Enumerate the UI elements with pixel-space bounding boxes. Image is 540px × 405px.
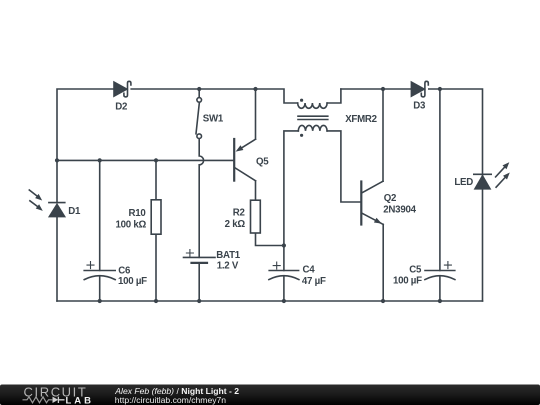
junction: bottom rail / BAT1 bbox=[197, 299, 201, 303]
wire: C6 top lead from rail bbox=[99, 160, 101, 270]
wire: bottom rail bbox=[57, 300, 483, 302]
junction: bottom rail / C6 bbox=[98, 299, 102, 303]
logo diode bbox=[53, 397, 59, 403]
wire: D2 cathode to XFMR primary left lead bbox=[131, 89, 298, 103]
wire: C5 top lead from top rail bbox=[439, 89, 441, 270]
diode D3 (schottky) bbox=[411, 81, 428, 97]
wire: SW1 top lead bbox=[198, 89, 200, 98]
wire: XFMR secondary right lead to Q2 base bbox=[327, 131, 360, 202]
wire: C4 bottom lead bbox=[283, 276, 285, 301]
transistor Q5 (PNP) bbox=[234, 139, 255, 181]
svg-text:100 µF: 100 µF bbox=[118, 276, 147, 287]
light arrow 2 bbox=[496, 178, 505, 188]
emitter with arrow into base bbox=[242, 139, 256, 147]
secondary polarity dot bbox=[300, 134, 303, 137]
plus sign bbox=[87, 262, 94, 269]
wire: R10 bottom lead bbox=[155, 234, 157, 301]
transformer XFMR2 bbox=[298, 99, 328, 137]
wire: top-left corner + left vertical down to D1 bbox=[57, 89, 114, 203]
light arrow 1 bbox=[496, 167, 505, 177]
wire: R2 bottom elbow to C4 branch bbox=[256, 233, 284, 246]
svg-text:R10: R10 bbox=[128, 208, 145, 219]
wire: XFMR primary right lead up to top rail bbox=[327, 89, 341, 103]
emitter with arrow bbox=[362, 213, 383, 224]
svg-text:1.2 V: 1.2 V bbox=[217, 261, 239, 272]
svg-text:Q2: Q2 bbox=[384, 193, 396, 204]
secondary coil bbox=[298, 125, 327, 131]
junction: top rail / Q2 collector bbox=[381, 87, 385, 91]
plus sign bbox=[273, 262, 280, 269]
primary coil bbox=[298, 103, 327, 108]
wire: Q5 emitter lead up to top rail bbox=[255, 89, 257, 139]
light arrow 2 bbox=[30, 201, 38, 207]
primary polarity dot bbox=[300, 99, 303, 102]
wire: R10 top lead bbox=[155, 160, 157, 199]
svg-text:C5: C5 bbox=[409, 265, 422, 276]
battery BAT1 bbox=[184, 250, 216, 263]
svg-text:100 kΩ: 100 kΩ bbox=[115, 219, 146, 230]
wire: D3 cathode to top-right corner, down to LED bbox=[429, 89, 483, 175]
svg-text:C6: C6 bbox=[118, 265, 131, 276]
junction: bottom rail / Q2 emitter bbox=[381, 299, 385, 303]
junction: bottom rail / C5 bbox=[438, 299, 442, 303]
logo resistor zigzag bbox=[23, 397, 53, 403]
wire: XFMR secondary left lead down to C4 bbox=[284, 131, 298, 271]
wire: BAT1 bottom lead bbox=[198, 263, 200, 301]
svg-text:LED: LED bbox=[454, 177, 473, 188]
photodiode D1 bbox=[29, 190, 65, 217]
junction: rail / R10 bbox=[154, 158, 158, 162]
LED bbox=[474, 162, 510, 189]
wire: SW1 bottom lead with hop over rail, down to BAT1 bbox=[199, 138, 203, 257]
svg-text:2N3904: 2N3904 bbox=[383, 205, 416, 216]
junction: left rail / D1 branch bbox=[55, 158, 59, 162]
diode D2 (schottky) bbox=[114, 81, 131, 97]
junction: R2 / C4 node bbox=[282, 243, 286, 247]
wire: Q5 collector to R2 top bbox=[255, 181, 257, 200]
wire: D1 anode to bottom rail bbox=[56, 217, 58, 301]
capacitor C6 bbox=[84, 262, 115, 280]
junction: rail / C6 bbox=[98, 158, 102, 162]
svg-text:R2: R2 bbox=[233, 208, 245, 219]
junction: top rail / SW1 bbox=[197, 87, 201, 91]
capacitor C5 bbox=[425, 262, 455, 280]
svg-text:XFMR2: XFMR2 bbox=[345, 114, 377, 125]
core bbox=[298, 116, 328, 119]
junction: bottom rail / R10 bbox=[154, 299, 158, 303]
svg-text:100 µF: 100 µF bbox=[393, 276, 422, 287]
wire: LED anode down to bottom-right corner bbox=[482, 189, 484, 301]
wire: C6 bottom lead bbox=[99, 276, 101, 301]
transistor Q2 (NPN 2N3904) bbox=[361, 181, 383, 224]
svg-text:BAT1: BAT1 bbox=[216, 250, 240, 261]
junction: bottom rail / C4 bbox=[282, 299, 286, 303]
plus sign bbox=[186, 250, 193, 257]
svg-text:http://circuitlab.com/chmey7n: http://circuitlab.com/chmey7n bbox=[115, 395, 227, 405]
wire: C5 bottom lead bbox=[439, 276, 441, 301]
svg-text:47 µF: 47 µF bbox=[302, 276, 326, 287]
wire: left node rail to Q5 base bbox=[57, 159, 233, 161]
switch SW1 bbox=[196, 98, 202, 139]
wire: Q2 emitter lead down to bottom rail bbox=[382, 224, 384, 301]
svg-text:D1: D1 bbox=[68, 206, 81, 217]
wire: top rail from XFMR to D3 bbox=[341, 88, 412, 90]
svg-text:D2: D2 bbox=[115, 101, 127, 112]
collector diagonal bbox=[362, 181, 383, 192]
collector diagonal bbox=[235, 168, 255, 181]
junction: top rail / C5 bbox=[438, 87, 442, 91]
junction: top rail / Q5 emitter bbox=[253, 87, 257, 91]
light arrow 1 bbox=[29, 190, 37, 196]
resistor R10 bbox=[151, 200, 161, 234]
resistor R2 bbox=[251, 200, 261, 233]
svg-text:Q5: Q5 bbox=[256, 157, 269, 168]
wire: Q2 collector lead up to top rail bbox=[382, 89, 384, 181]
plus sign bbox=[444, 262, 451, 269]
svg-text:LAB: LAB bbox=[66, 396, 95, 405]
capacitor C4 bbox=[269, 262, 299, 280]
svg-text:D3: D3 bbox=[413, 101, 426, 112]
svg-text:C4: C4 bbox=[303, 265, 316, 276]
svg-text:2 kΩ: 2 kΩ bbox=[225, 219, 246, 230]
svg-text:SW1: SW1 bbox=[203, 114, 224, 125]
